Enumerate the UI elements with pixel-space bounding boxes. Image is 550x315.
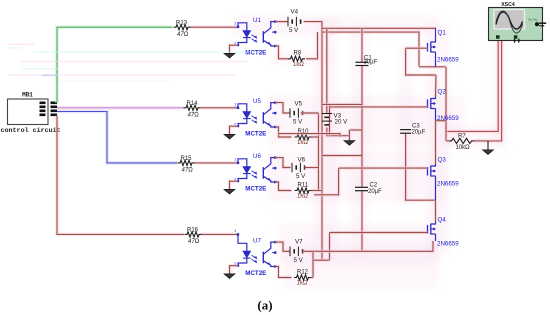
wire R16 to U7 (202, 233, 239, 237)
svg-text:47Ω: 47Ω (188, 113, 200, 119)
svg-text:MCT2E: MCT2E (245, 270, 266, 277)
resistor R7 10kOhm (449, 133, 474, 151)
resistor R11 1kΩ (295, 182, 312, 199)
svg-text:5 V: 5 V (293, 119, 303, 126)
resistor R12 1kΩ (294, 269, 311, 286)
wire U6 cathode to ground (230, 181, 239, 189)
svg-text:R13: R13 (176, 20, 188, 26)
wire R13 to U1 (191, 25, 239, 29)
wire blue control to R15 (57, 112, 177, 163)
resistor R10 1kΩ (295, 129, 312, 146)
svg-text:30µF: 30µF (364, 60, 378, 66)
wire Q1 gate lead (406, 46, 428, 50)
op-amp U5 optocoupler MCT2E (234, 98, 276, 137)
svg-text:U6: U6 (253, 153, 261, 160)
wire Q2 source tap (436, 119, 446, 123)
wire V3 top lead (325, 28, 329, 113)
wire return trunk x=318.5 (317, 113, 321, 191)
op-amp U7 optocoupler MCT2E (234, 228, 276, 277)
wire R10 right (312, 135, 319, 139)
resistor R15 47Ω (178, 156, 195, 174)
svg-text:MCT2E: MCT2E (245, 185, 266, 192)
svg-text:R7: R7 (458, 133, 466, 139)
battery V7 5V (290, 239, 304, 264)
wire U6 emitter to R11 (275, 182, 291, 191)
capacitor C3 20uF (400, 124, 426, 136)
svg-text:XSC4: XSC4 (501, 2, 515, 8)
svg-text:Ext Trig: Ext Trig (529, 19, 538, 22)
wire U5 cathode to ground (230, 126, 239, 134)
wire V7 return row y=251 (313, 241, 433, 251)
wire V6 right (305, 166, 319, 170)
wire C2 bottom trunk (360, 191, 364, 251)
wire brown control to R16 (57, 116, 184, 235)
wire green control to R13 (57, 27, 173, 103)
wire R11 right (312, 189, 323, 193)
wire R15 to U6 (195, 161, 239, 165)
svg-text:R8: R8 (294, 51, 302, 57)
oscilloscope XSC4 (489, 2, 547, 42)
wire ground stem near V3 (348, 130, 352, 140)
svg-text:MCT2E: MCT2E (245, 130, 266, 137)
svg-text:R11: R11 (298, 182, 309, 188)
wire U6 collector to V6 (275, 158, 290, 168)
wire R7 left (446, 139, 449, 143)
wire rail y=104.4 (322, 103, 362, 107)
connector pins of control block (40, 102, 58, 117)
net-label ghost artifact lines (8, 44, 258, 82)
svg-text:47Ω: 47Ω (177, 32, 189, 38)
wire centre trunk x=362 (C1 bottom to C2 top) (360, 66, 364, 187)
wire U5 emitter to R10 (275, 127, 291, 137)
wire Q2 gate lead (330, 105, 428, 109)
wire U1 cathode to ground (230, 45, 239, 53)
wire Q4 gate lead (330, 231, 428, 235)
wire U7 emitter to R12 (275, 267, 291, 278)
wire U7 cathode to ground (230, 266, 239, 274)
wire Q2 drain feed (434, 75, 438, 97)
svg-text:2N6659: 2N6659 (437, 115, 459, 122)
wire trunk x=329.5 lower (328, 233, 332, 261)
wire Q1 drain lead (435, 28, 437, 40)
svg-text:MB1: MB1 (22, 92, 33, 99)
wire C3 column top / Q2 drain tie (406, 48, 436, 75)
svg-text:5 V: 5 V (294, 257, 304, 264)
wire top drain rail y=28.3 (322, 26, 436, 30)
ground at U6 (224, 189, 235, 194)
wire right column x=446 (444, 67, 448, 141)
ground at U5 (224, 134, 235, 139)
battery V6 5V (292, 157, 306, 181)
wire mid node Q2-Q3 (434, 121, 438, 164)
svg-text:47Ω: 47Ω (182, 168, 194, 174)
svg-text:2N6659: 2N6659 (437, 57, 459, 64)
wire U1 emitter to R8 (275, 46, 288, 59)
transistor Q4 2N6659 (428, 217, 460, 248)
svg-text:1: 1 (234, 156, 237, 161)
svg-text:20µF: 20µF (368, 189, 382, 195)
wire scope B to ground (488, 39, 502, 141)
svg-text:U1: U1 (253, 17, 261, 24)
svg-text:1: 1 (234, 101, 237, 106)
svg-text:20µF: 20µF (412, 129, 426, 135)
svg-text:Q4: Q4 (438, 217, 447, 224)
transistor Q3 2N6659 (428, 157, 460, 201)
wire ground tie to trunk (349, 128, 361, 132)
svg-text:20 V: 20 V (335, 119, 349, 126)
wire R8 right up (306, 32, 318, 59)
resistor R8 1kΩ (288, 51, 305, 68)
transistor Q2 2N6659 (428, 89, 460, 123)
ground at U1 (224, 53, 235, 58)
svg-text:MCT2E: MCT2E (245, 49, 266, 56)
capacitor C1 30uF (356, 56, 378, 66)
wire trunk x=329.5 upper (328, 104, 332, 136)
background chroma wash (232, 16, 506, 288)
wire magenta control to R14 (57, 106, 184, 110)
resistor R13 47Ω (174, 20, 191, 38)
svg-text:10kΩ: 10kΩ (456, 145, 471, 151)
wire rail y=155.5 (322, 154, 362, 158)
wire U7 collector to V7 (275, 242, 289, 251)
wire V3 bottom (327, 128, 350, 136)
svg-text:control circuit: control circuit (1, 127, 61, 135)
wire row2 parallel return (278, 134, 340, 137)
svg-text:V5: V5 (295, 101, 303, 108)
wire V5 right (301, 111, 319, 115)
svg-text:V7: V7 (295, 239, 303, 246)
control circuit block MB1 (1, 92, 61, 136)
svg-text:5 V: 5 V (296, 173, 306, 180)
ground near V3 (344, 140, 355, 145)
ground at U7 (224, 274, 235, 279)
wire R7 right to ground (474, 139, 488, 143)
svg-text:U7: U7 (253, 237, 261, 244)
wire V7 right (303, 250, 313, 254)
svg-text:R15: R15 (181, 156, 193, 162)
svg-text:Q2: Q2 (438, 89, 447, 96)
wire R11 jog to Q3 gate (314, 168, 339, 195)
svg-text:1kΩ: 1kΩ (297, 281, 308, 287)
capacitor C2 20uF (355, 183, 382, 195)
svg-text:47Ω: 47Ω (188, 239, 200, 245)
svg-text:2N6659: 2N6659 (437, 181, 459, 188)
op-amp U6 optocoupler MCT2E (234, 153, 276, 192)
svg-text:V6: V6 (298, 157, 306, 164)
wire C3 bottom to Q3 source (406, 134, 436, 200)
battery V5 5V (290, 101, 303, 126)
battery V4 5V (288, 9, 301, 35)
svg-text:5 V: 5 V (289, 27, 299, 34)
svg-text:R16: R16 (187, 228, 199, 234)
svg-text:C2: C2 (370, 183, 378, 189)
wire R12 right (311, 276, 313, 280)
battery V3 20V (322, 113, 349, 126)
wire U1 collector to V4 (275, 20, 288, 24)
wire y=260 tie (313, 258, 330, 262)
svg-text:U5: U5 (253, 98, 261, 105)
svg-text:1kΩ: 1kΩ (297, 140, 308, 146)
svg-text:1kΩ: 1kΩ (293, 62, 304, 68)
ground right of R7 (483, 141, 494, 155)
svg-text:R14: R14 (187, 101, 199, 107)
wire R14 to U5 (201, 106, 239, 110)
resistor R14 47Ω (184, 101, 201, 119)
wire U5 collector to V5 (275, 103, 289, 113)
wire node Q3-Q4 (434, 200, 438, 222)
wire C1 top lead (360, 28, 364, 62)
svg-text:2N6659: 2N6659 (437, 241, 459, 248)
wire Q3 gate lead (339, 166, 428, 170)
resistor R16 47Ω (185, 228, 202, 246)
wire x=313 V7/R12 tie (311, 251, 315, 277)
wire rail y=32 to x=419 down (322, 32, 419, 67)
svg-text:(a): (a) (257, 298, 272, 313)
op-amp U1 optocoupler MCT2E (234, 17, 276, 56)
svg-text:Q3: Q3 (438, 157, 447, 164)
transistor Q1 2N6659 (428, 30, 460, 67)
wire Q1 source row y=66.8 (419, 65, 446, 69)
svg-text:R12: R12 (297, 269, 309, 275)
svg-text:1kΩ: 1kΩ (297, 194, 308, 200)
wire V4+ trunk down x=322 (304, 22, 323, 261)
svg-text:1: 1 (234, 228, 237, 233)
svg-text:Q1: Q1 (438, 30, 447, 37)
svg-text:V4: V4 (291, 9, 299, 16)
wire scope A to output node (446, 39, 498, 132)
